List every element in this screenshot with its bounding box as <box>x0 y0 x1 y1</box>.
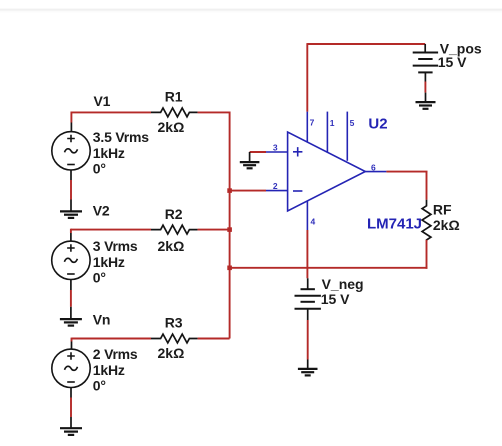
wire bus vertical <box>229 112 231 339</box>
toolbar divider line <box>0 9 502 11</box>
wire V1 top stub black <box>70 123 72 133</box>
svg-text:1kHz: 1kHz <box>93 254 125 270</box>
svg-text:3.5 Vrms: 3.5 Vrms <box>93 129 149 145</box>
wire V_pos horizontal red <box>307 43 425 45</box>
svg-text:4: 4 <box>311 216 316 226</box>
pin 4 stub <box>306 201 308 230</box>
op-amp minus input mark <box>293 190 302 192</box>
pin 6 stub <box>365 171 386 173</box>
wire bus to pin2 red <box>230 190 266 192</box>
wire V_pos to ground red <box>424 82 426 93</box>
wire V1 bottom stub black <box>70 170 72 180</box>
wire +input ground red <box>250 151 266 153</box>
svg-text:7: 7 <box>310 118 315 128</box>
wire R1 to bus <box>198 111 231 113</box>
resistor R2 <box>151 225 198 234</box>
wire Vn top stub black <box>71 342 73 350</box>
resistor RF <box>422 200 431 241</box>
svg-text:2kΩ: 2kΩ <box>158 238 185 254</box>
wire RF bottom red <box>426 240 428 269</box>
wire V2 top stub black <box>70 233 72 241</box>
op-amp plus input mark <box>293 147 302 156</box>
svg-text:2 Vrms: 2 Vrms <box>93 346 138 362</box>
svg-text:15 V: 15 V <box>438 54 467 70</box>
wire Vn to ground red <box>70 398 72 418</box>
pin 3 blue stub <box>266 151 288 153</box>
ground at +input <box>240 152 260 168</box>
svg-text:2kΩ: 2kΩ <box>158 119 185 135</box>
op-amp U1 triangle <box>288 132 366 211</box>
pin 1 stub <box>326 112 328 153</box>
svg-text:R1: R1 <box>165 88 183 104</box>
svg-text:15 V: 15 V <box>321 291 350 307</box>
source Vn <box>52 349 90 387</box>
svg-text:U2: U2 <box>368 115 387 132</box>
svg-text:1kHz: 1kHz <box>93 362 125 378</box>
svg-text:2kΩ: 2kΩ <box>158 345 185 361</box>
svg-text:0°: 0° <box>93 270 106 286</box>
svg-text:2: 2 <box>273 181 278 191</box>
ground V_pos <box>416 93 436 109</box>
wire pin4 to V_neg red <box>306 230 308 278</box>
svg-text:0°: 0° <box>93 378 106 394</box>
ground Vn <box>60 417 82 435</box>
svg-text:1kHz: 1kHz <box>93 145 125 161</box>
source V1 <box>52 132 90 170</box>
ground V_neg <box>298 360 318 376</box>
svg-text:R2: R2 <box>165 206 183 222</box>
battery V_neg <box>295 278 321 320</box>
svg-text:6: 6 <box>371 162 376 172</box>
wire feedback horizontal red <box>230 267 428 269</box>
svg-text:R3: R3 <box>165 315 183 331</box>
wire V2 row horizontal <box>71 229 151 231</box>
junction node R1/pin2 <box>227 188 232 193</box>
pin 7 stub <box>306 112 308 143</box>
wire V2 to ground red <box>70 290 72 307</box>
svg-text:1: 1 <box>330 118 335 128</box>
wire V2 bottom stub black <box>70 280 72 291</box>
svg-text:3: 3 <box>273 142 278 152</box>
pin 5 stub <box>346 112 348 161</box>
svg-text:V1: V1 <box>94 93 111 109</box>
junction node R2 row <box>227 227 232 232</box>
svg-text:LM741J: LM741J <box>367 216 422 233</box>
ground V1 <box>60 200 82 218</box>
wire pin7 to V_pos vertical red <box>306 43 308 112</box>
wire R2 to bus <box>198 229 230 231</box>
battery V_pos <box>413 44 438 82</box>
source V2 <box>52 241 90 279</box>
wire pin6 output red <box>386 171 427 173</box>
wire R3 to bus <box>198 338 230 340</box>
wire Vn bottom stub black <box>70 388 72 398</box>
svg-text:0°: 0° <box>93 160 106 176</box>
svg-text:5: 5 <box>350 118 355 128</box>
svg-text:3 Vrms: 3 Vrms <box>93 238 138 254</box>
svg-text:2kΩ: 2kΩ <box>433 217 460 233</box>
wire V1 to ground red <box>70 180 72 200</box>
wire V2 top stub red <box>70 229 72 233</box>
ground V2 <box>60 307 82 326</box>
svg-text:V2: V2 <box>93 202 110 218</box>
svg-text:Vn: Vn <box>93 312 111 328</box>
wire V1 row horizontal <box>71 111 151 113</box>
wire Vn row horizontal <box>72 338 152 340</box>
pin 2 blue stub <box>266 190 288 192</box>
svg-text:RF: RF <box>433 201 452 217</box>
svg-text:V_neg: V_neg <box>322 276 364 292</box>
wire V_neg to ground red <box>307 320 309 360</box>
wire Vn top stub red <box>71 338 73 342</box>
junction node feedback <box>227 266 232 271</box>
resistor R1 <box>151 108 198 117</box>
wire output down to RF red <box>426 172 428 200</box>
resistor R3 <box>151 334 198 343</box>
wire V1 top stub red <box>70 112 72 123</box>
